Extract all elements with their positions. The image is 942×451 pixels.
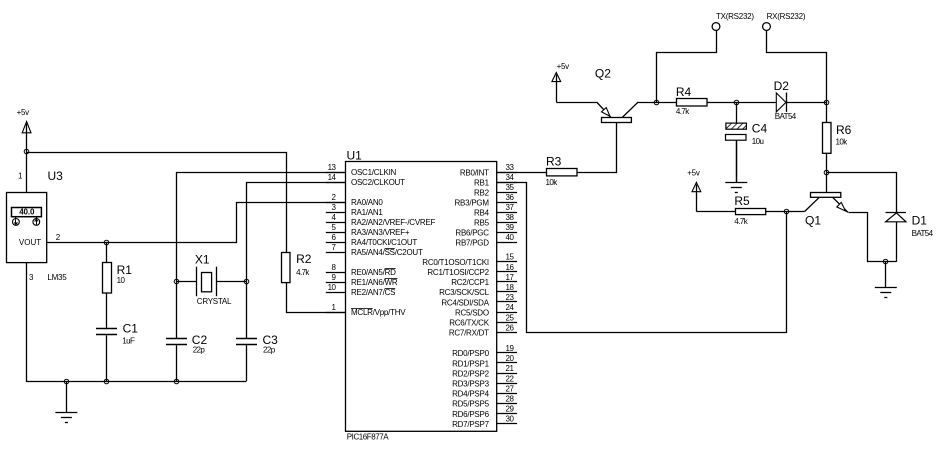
svg-text:RX(RS232): RX(RS232) [767, 12, 806, 21]
svg-text:RE2/AN7/CS: RE2/AN7/CS [351, 288, 395, 297]
U1 pin 30 RD7/PSP7 [452, 415, 517, 429]
U1 pin 20 RD1/PSP1 [452, 354, 517, 368]
node emitter / D1 anode / ground [883, 259, 888, 264]
U1 pin 17 RC2/CCP1 [451, 273, 517, 287]
wire RB1 to R5 node [498, 183, 787, 333]
terminal RX(RS232) [763, 12, 806, 30]
svg-text:17: 17 [506, 273, 515, 282]
svg-text:20: 20 [506, 354, 515, 363]
svg-text:1uF: 1uF [122, 337, 135, 346]
svg-text:RD6/PSP6: RD6/PSP6 [452, 410, 489, 419]
wire RX to D2 cathode node [767, 31, 827, 103]
U1 pin 15 RC0/T1OSO/T1CKI [422, 253, 517, 267]
wire OSC2 column [246, 182, 346, 338]
U1 pin 29 RD6/PSP6 [452, 405, 517, 419]
sensor U3 LM35 body [7, 169, 68, 282]
U1 pin 2 RA0/AN0 [326, 193, 384, 207]
svg-text:RC0/T1OSO/T1CKI: RC0/T1OSO/T1CKI [422, 258, 489, 267]
svg-text:30: 30 [506, 415, 515, 424]
U1 pin 1 MCLR/Vpp/THV [326, 303, 406, 317]
svg-text:RD3/PSP3: RD3/PSP3 [452, 380, 489, 389]
U1 pin 40 RB7/PGD [455, 233, 517, 247]
svg-text:RB5: RB5 [474, 218, 490, 227]
U1 pin 8 RE0/AN5/RD [326, 263, 396, 277]
node crystal left [174, 279, 179, 284]
svg-text:21: 21 [506, 364, 515, 373]
svg-text:R5: R5 [734, 194, 750, 208]
svg-text:BAT54: BAT54 [912, 229, 934, 238]
wire +5v node to U3 pin 1 [26, 152, 28, 192]
U1 pin 22 RD3/PSP3 [452, 374, 517, 388]
svg-text:18: 18 [506, 283, 515, 292]
node ground bus / C1 [104, 379, 109, 384]
svg-text:OSC1/CLKIN: OSC1/CLKIN [351, 168, 397, 177]
svg-text:R2: R2 [296, 252, 312, 266]
svg-text:CRYSTAL: CRYSTAL [197, 297, 232, 306]
transistor Q2 (PNP) [556, 67, 656, 123]
svg-text:RD2/PSP2: RD2/PSP2 [452, 369, 489, 378]
svg-text:RE1/AN6/WR: RE1/AN6/WR [351, 278, 398, 287]
diode D2 BAT54 [736, 79, 827, 121]
svg-text:RB7/PGD: RB7/PGD [455, 238, 489, 247]
svg-text:35: 35 [506, 183, 515, 192]
svg-text:24: 24 [506, 303, 515, 312]
U1 pin 25 RC6/TX/CK [449, 313, 517, 327]
svg-text:10u: 10u [752, 137, 764, 146]
svg-text:26: 26 [506, 323, 515, 332]
U1 pin 34 RB1 [474, 173, 517, 187]
svg-text:RB2: RB2 [474, 188, 490, 197]
node ground bus / ground stub [64, 379, 69, 384]
svg-text:R4: R4 [676, 85, 692, 99]
resistor R6 [823, 102, 852, 172]
U1 pin 35 RB2 [474, 183, 517, 197]
U1 pin 36 RB3/PGM [455, 193, 518, 207]
U1 pin 21 RD2/PSP2 [452, 364, 517, 378]
svg-text:Q1: Q1 [805, 213, 821, 227]
node ground bus / C2 [174, 379, 179, 384]
svg-text:+5v: +5v [687, 169, 700, 178]
svg-text:13: 13 [328, 163, 337, 172]
svg-text:RD4/PSP4: RD4/PSP4 [452, 390, 489, 399]
svg-text:+5v: +5v [557, 62, 570, 71]
U1 pin 26 RC7/RX/DT [449, 323, 517, 337]
svg-text:RA5/AN4/SS/C2OUT: RA5/AN4/SS/C2OUT [351, 248, 423, 257]
U1 pin 23 RC4/SDI/SDA [441, 293, 517, 307]
svg-text:10: 10 [328, 283, 337, 292]
svg-text:BAT54: BAT54 [775, 112, 797, 121]
svg-text:RE0/AN5/RD: RE0/AN5/RD [351, 268, 396, 277]
svg-text:+5v: +5v [17, 108, 30, 117]
svg-text:4.7k: 4.7k [296, 268, 310, 277]
svg-text:RC1/T1OSI/CCP2: RC1/T1OSI/CCP2 [427, 268, 489, 277]
terminal TX(RS232) [712, 12, 754, 30]
svg-text:LM35: LM35 [47, 273, 67, 282]
svg-text:PIC16F877A: PIC16F877A [347, 433, 389, 442]
wire R2 to MCLR [287, 283, 346, 313]
svg-text:25: 25 [506, 313, 515, 322]
svg-text:22: 22 [506, 374, 515, 383]
U1 pin 39 RB6/PGC [455, 223, 517, 237]
diode D1 BAT54 [886, 213, 934, 262]
svg-text:U1: U1 [347, 149, 363, 163]
node R6 / Q1 collector / D1 [824, 170, 829, 175]
U1 pin 3 RA1/AN1 [326, 203, 384, 217]
U1 pin 14 OSC2/CLKOUT [326, 173, 405, 187]
svg-text:10: 10 [117, 276, 126, 285]
svg-text:10k: 10k [546, 178, 559, 187]
transistor Q1 (PNP) [786, 172, 897, 262]
wire +5v rail to R2 [27, 153, 287, 253]
svg-text:RC6/TX/CK: RC6/TX/CK [449, 319, 489, 328]
svg-text:37: 37 [506, 203, 515, 212]
node D2 / RX / R6 [824, 100, 829, 105]
svg-text:34: 34 [506, 173, 515, 182]
U3 pin 3 number [29, 273, 34, 282]
node R4 / D2 / C4 [734, 100, 739, 105]
svg-text:RA3/AN3/VREF+: RA3/AN3/VREF+ [351, 228, 410, 237]
svg-text:27: 27 [506, 384, 515, 393]
svg-text:40: 40 [506, 233, 515, 242]
power +5v for R5 [687, 169, 701, 212]
svg-text:D1: D1 [912, 213, 928, 227]
U1 pin 10 RE2/AN7/CS [326, 283, 395, 297]
svg-text:RA2/AN2/VREF-/CVREF: RA2/AN2/VREF-/CVREF [351, 218, 436, 227]
svg-text:VOUT: VOUT [19, 238, 41, 247]
capacitor C4 [726, 102, 768, 182]
U1 pin 24 RC5/SDO [455, 303, 517, 317]
svg-text:RD5/PSP5: RD5/PSP5 [452, 400, 489, 409]
svg-text:RB4: RB4 [474, 208, 490, 217]
svg-text:15: 15 [506, 253, 515, 262]
svg-text:10k: 10k [836, 138, 849, 147]
svg-text:U3: U3 [48, 169, 64, 183]
U1 pin 38 RB5 [474, 213, 517, 227]
ground symbol left [55, 382, 77, 423]
svg-text:RB3/PGM: RB3/PGM [455, 198, 490, 207]
capacitor C1 [96, 322, 138, 382]
power +5v rail top-left [17, 108, 31, 152]
svg-text:RA4/T0CKI/C1OUT: RA4/T0CKI/C1OUT [351, 238, 417, 247]
svg-text:4.7k: 4.7k [676, 107, 690, 116]
wire U3 pin3 down + ground bus [27, 263, 247, 382]
svg-text:40.0: 40.0 [19, 208, 35, 217]
svg-text:RC4/SDI/SDA: RC4/SDI/SDA [441, 298, 489, 307]
svg-text:C3: C3 [263, 333, 279, 347]
wire R3 to Q2 base [578, 123, 617, 173]
svg-text:RC7/RX/DT: RC7/RX/DT [449, 329, 489, 338]
svg-text:RA1/AN1: RA1/AN1 [351, 208, 383, 217]
wire TX to Q2 collector node [657, 31, 717, 103]
resistor R2 [282, 252, 312, 283]
svg-text:RB6/PGC: RB6/PGC [455, 228, 489, 237]
svg-text:19: 19 [506, 344, 515, 353]
svg-text:RC5/SDO: RC5/SDO [455, 308, 489, 317]
power +5v for Q2 [552, 62, 569, 102]
svg-text:16: 16 [506, 263, 515, 272]
wire node to D1 cathode [827, 173, 897, 213]
node crystal right [244, 279, 249, 284]
U1 pin 5 RA3/AN3/VREF+ [326, 223, 410, 237]
resistor R5 [696, 194, 786, 226]
U1 pin 19 RD0/PSP0 [452, 344, 517, 358]
svg-text:RD7/PSP7: RD7/PSP7 [452, 420, 489, 429]
U3 pin 2 number [56, 233, 61, 242]
U1 pin 18 RC3/SCK/SCL [439, 283, 517, 297]
svg-text:RB1: RB1 [474, 178, 490, 187]
svg-text:22p: 22p [263, 346, 276, 355]
svg-text:33: 33 [506, 163, 515, 172]
svg-text:R1: R1 [117, 263, 133, 277]
svg-text:R6: R6 [836, 123, 852, 137]
U1 pin 7 RA5/AN4/SS/C2OUT [326, 243, 423, 257]
U3 pin 1 number [18, 172, 23, 181]
U1 pin 28 RD5/PSP5 [452, 395, 517, 409]
capacitor C2 [166, 333, 207, 381]
U1 pin 13 OSC1/CLKIN [326, 163, 397, 177]
svg-text:RC2/CCP1: RC2/CCP1 [451, 278, 489, 287]
svg-text:RD1/PSP1: RD1/PSP1 [452, 359, 489, 368]
svg-text:RB0/INT: RB0/INT [460, 168, 489, 177]
svg-text:28: 28 [506, 395, 515, 404]
svg-text:23: 23 [506, 293, 515, 302]
svg-text:RD0/PSP0: RD0/PSP0 [452, 349, 489, 358]
svg-text:C4: C4 [752, 122, 768, 136]
node +5v / U3 pin1 junction [24, 149, 29, 154]
U1 pin 27 RD4/PSP4 [452, 384, 517, 398]
svg-text:Q2: Q2 [595, 67, 611, 81]
svg-text:TX(RS232): TX(RS232) [716, 12, 754, 21]
svg-text:MCLR/Vpp/THV: MCLR/Vpp/THV [351, 308, 406, 317]
svg-text:39: 39 [506, 223, 515, 232]
wire RB0 to R3 [497, 172, 547, 174]
svg-text:14: 14 [328, 173, 337, 182]
svg-text:22p: 22p [193, 346, 206, 355]
svg-text:D2: D2 [774, 79, 790, 93]
node VOUT / R1 junction [104, 240, 109, 245]
resistor R3 [546, 155, 578, 187]
U1 pin 37 RB4 [474, 203, 517, 217]
resistor R1 [103, 242, 133, 329]
ground symbol for C4 [725, 141, 747, 193]
node R5 / Q1 base / RB1 wire [784, 209, 789, 214]
node Q2 collector / TX / R4 [654, 100, 659, 105]
svg-text:29: 29 [506, 405, 515, 414]
svg-text:4.7k: 4.7k [734, 217, 748, 226]
resistor R4 [657, 85, 737, 116]
U1 pin 6 RA4/T0CKI/C1OUT [326, 233, 418, 247]
IC U1 PIC16F877A box [346, 149, 497, 442]
U1 pin 4 RA2/AN2/VREF-/CVREF [326, 213, 436, 227]
wire OSC1 column [176, 172, 346, 338]
svg-text:C2: C2 [192, 333, 208, 347]
svg-text:36: 36 [506, 193, 515, 202]
ground symbol for Q1/D1 [875, 262, 897, 298]
svg-text:X1: X1 [195, 253, 210, 267]
capacitor C3 [236, 333, 278, 381]
svg-text:38: 38 [506, 213, 515, 222]
svg-text:RC3/SCK/SCL: RC3/SCK/SCL [439, 288, 490, 297]
svg-text:C1: C1 [123, 322, 139, 336]
U1 pin 16 RC1/T1OSI/CCP2 [427, 263, 517, 277]
U1 pin 33 RB0/INT [460, 163, 517, 177]
wire U3 VOUT to RA0 [47, 203, 346, 243]
svg-text:OSC2/CLKOUT: OSC2/CLKOUT [351, 178, 405, 187]
U1 pin 9 RE1/AN6/WR [326, 273, 398, 287]
crystal X1 [176, 253, 246, 306]
svg-text:R3: R3 [546, 155, 562, 169]
svg-text:RA0/AN0: RA0/AN0 [351, 198, 383, 207]
